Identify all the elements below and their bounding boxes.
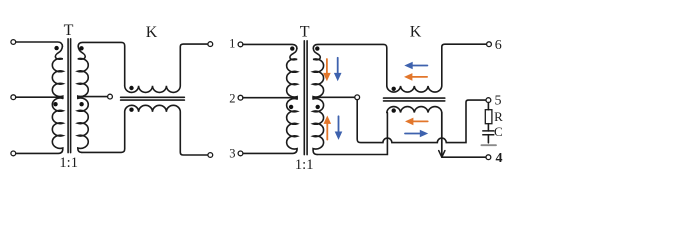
terminal 5 — [486, 98, 491, 103]
transformer T1 secondary upper winding — [78, 46, 88, 98]
wire (R to capacitor C) — [487, 124, 489, 131]
wire (T1 secondary center tap to middle terminal) — [78, 96, 108, 98]
terminal 3 — [238, 151, 243, 156]
transformer T2 primary upper winding — [287, 48, 297, 99]
polarity dot T1 primary upper — [54, 46, 58, 50]
svg-text:T: T — [300, 24, 310, 41]
transformer T2 primary lower winding — [243, 99, 297, 154]
wire (T2 secondary top to K2 top winding left) — [313, 44, 387, 86]
blue arrow down (T2 secondary upper loop) — [334, 58, 342, 82]
polarity dot T2 secondary lower — [316, 105, 320, 109]
polarity dot T1 secondary upper — [79, 46, 83, 50]
orange arrow up (T2 secondary lower loop) — [324, 116, 332, 140]
blue arrow left (above K2 top winding) — [404, 62, 427, 70]
choke K1 bottom winding — [125, 105, 208, 155]
svg-text:1: 1 — [229, 37, 235, 51]
terminal 1 — [238, 42, 243, 47]
wire (T1 secondary top to K1 top winding left) — [78, 42, 125, 85]
svg-text:C: C — [494, 124, 503, 139]
svg-text:R: R — [494, 109, 503, 124]
resistor R — [485, 110, 492, 124]
terminal (left circuit, middle-left) — [11, 95, 16, 100]
choke K2 top winding — [387, 44, 487, 92]
wire (node down and right rail to terminal 5 riser, with hops) — [357, 100, 486, 143]
wire (C to ground stub) — [487, 135, 489, 143]
node (T2 center tap junction circle) — [355, 95, 360, 100]
orange arrow left (inside K2 bottom loop) — [405, 118, 428, 126]
capacitor C — [483, 131, 494, 135]
svg-text:T: T — [64, 22, 74, 39]
polarity dot T2 primary upper — [290, 46, 294, 50]
polarity dot K2 bottom winding — [392, 108, 396, 112]
transformer T2 secondary upper winding — [313, 48, 323, 99]
svg-text:K: K — [146, 24, 158, 41]
wire (K2 bottom winding right end down to bottom rail) — [441, 113, 443, 156]
svg-text:2: 2 — [229, 92, 235, 106]
wire (bottom rail to terminal 4) — [442, 156, 486, 158]
terminal (left circuit, bottom-right) — [208, 153, 213, 158]
orange arrow left (above K2 top winding) — [404, 73, 427, 81]
wire (top-left terminal to T primary top) — [16, 42, 63, 46]
svg-text:5: 5 — [495, 93, 502, 108]
polarity dot K1 bottom winding — [129, 108, 133, 112]
blue arrow down (T2 secondary lower loop) — [335, 116, 343, 140]
transformer T1 secondary lower winding — [78, 98, 88, 152]
choke K2 core — [384, 98, 445, 101]
polarity dot T1 secondary lower — [79, 102, 83, 106]
current arrowhead (black, down) on K2 right drop — [439, 151, 445, 158]
wire (T2 secondary center tap to node) — [313, 96, 355, 98]
terminal 2 — [238, 95, 243, 100]
polarity dot T2 secondary upper — [315, 46, 319, 50]
terminal 6 — [487, 42, 492, 47]
polarity dot K1 top winding — [129, 86, 133, 90]
svg-text:3: 3 — [229, 147, 235, 161]
transformer T2 secondary lower winding — [313, 99, 323, 155]
polarity dot K2 top winding — [392, 87, 396, 91]
wire (terminal 5 to resistor R) — [487, 103, 489, 110]
orange arrow down (T2 secondary upper loop) — [323, 59, 331, 81]
ground stub below C — [481, 144, 496, 146]
transformer T1 core — [68, 39, 71, 153]
wire (terminal 2 to T2 primary center tap) — [243, 97, 297, 99]
blue arrow right (inside K2 bottom loop) — [405, 130, 428, 138]
polarity dot T2 primary lower — [289, 105, 293, 109]
terminal (left circuit, top-right) — [208, 42, 213, 47]
svg-text:6: 6 — [495, 38, 502, 53]
svg-text:1:1: 1:1 — [59, 155, 78, 171]
choke K1 top winding — [125, 44, 208, 92]
transformer T2 core — [304, 41, 307, 155]
wire (terminal 1 to T2 primary top) — [243, 44, 297, 48]
choke K2 bottom winding — [387, 107, 442, 113]
wire (T1 secondary bottom to K1 bottom winding left) — [82, 112, 125, 152]
terminal (left circuit, secondary center tap) — [108, 94, 113, 99]
wire (middle-left terminal to T primary center tap) — [16, 96, 63, 98]
wire (T2 secondary bottom rail to K2 bottom-left riser) — [317, 113, 387, 155]
transformer T1 primary upper winding — [52, 46, 62, 98]
polarity dot T1 primary lower — [53, 102, 57, 106]
transformer T1 primary lower winding — [16, 98, 63, 153]
svg-text:4: 4 — [496, 151, 503, 166]
svg-text:1:1: 1:1 — [295, 157, 314, 173]
svg-text:K: K — [410, 24, 422, 41]
terminal 4 — [486, 155, 491, 160]
terminal (left circuit, bottom-left) — [11, 151, 16, 156]
choke K1 core — [121, 97, 185, 100]
terminal (left circuit, top-left) — [11, 40, 16, 45]
